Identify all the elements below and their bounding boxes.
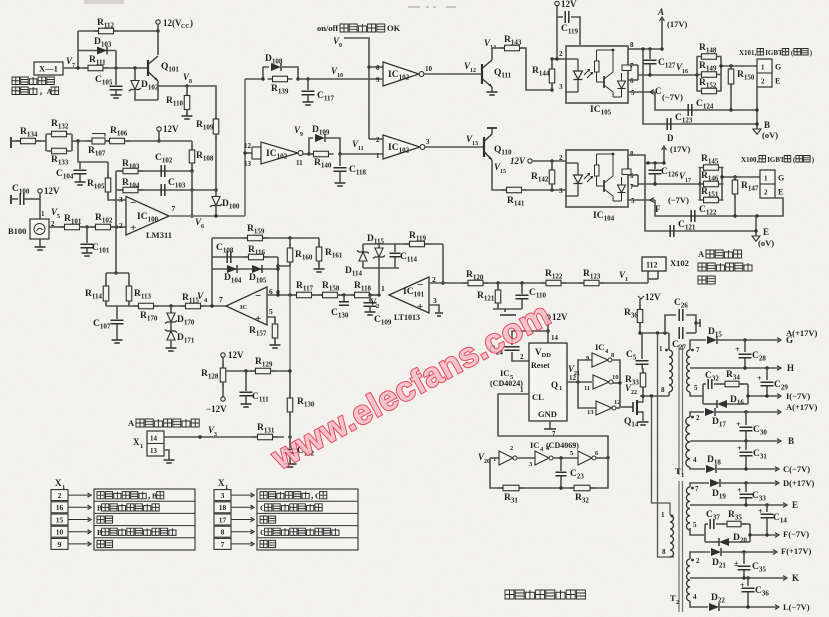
vertical feedback column x116 xyxy=(115,171,117,228)
zener D115 xyxy=(378,244,380,248)
capacitor C117 xyxy=(298,78,383,80)
resistor R108 xyxy=(191,141,193,150)
capacitor C121 xyxy=(645,163,756,231)
op-amp IC101a mirrored xyxy=(226,287,267,325)
wire G row lower xyxy=(722,176,760,178)
capacitor C130 xyxy=(337,294,356,296)
zener D170 xyxy=(169,304,172,307)
diode D103 xyxy=(78,50,116,52)
node V3 column xyxy=(288,435,291,438)
wire pin6 to R117 chain xyxy=(267,294,297,296)
terminal -12V xyxy=(221,397,225,401)
resistor R118 xyxy=(350,294,375,296)
wire R108 down to row C xyxy=(191,171,193,190)
capacitor C109 xyxy=(369,294,379,296)
capacitor C124 xyxy=(655,92,757,110)
annotation A-phase input (Chinese) xyxy=(12,77,20,85)
wire column to V6 row xyxy=(191,190,193,216)
wire inverter outputs merge xyxy=(612,360,620,407)
op-amp IC100 LM311 xyxy=(126,197,169,236)
row R103/C102 xyxy=(116,170,192,172)
resistor R161 xyxy=(318,238,320,247)
capacitor C36 polarized xyxy=(747,578,749,586)
T1 primary winding pins 1-8 xyxy=(668,333,670,350)
T1 core xyxy=(678,345,680,475)
capacitor C107 xyxy=(106,305,129,307)
resistor R131 xyxy=(253,436,278,438)
terminal 12V for B100 xyxy=(38,189,42,193)
wire V7 column xyxy=(77,31,79,68)
terminal 12V top xyxy=(555,1,559,5)
resistor R110 xyxy=(186,86,188,95)
wire LM311 output V6 xyxy=(170,215,245,217)
node C -7V xyxy=(650,90,654,95)
resistor R104 xyxy=(118,189,143,191)
feedback right column xyxy=(277,257,279,292)
capacitor C118 xyxy=(339,154,341,166)
op-amp IC101 LT1013 xyxy=(389,277,429,313)
trimmer R107 xyxy=(87,140,110,142)
resistor R32 xyxy=(569,487,595,489)
diode D17 and A output xyxy=(690,412,704,417)
resistor R111 xyxy=(83,67,108,69)
T2 core xyxy=(678,481,680,612)
inverter osc a xyxy=(490,457,499,459)
wire X-1 to R111 xyxy=(63,67,88,69)
capacitor C33 polarized xyxy=(745,483,747,492)
wire R129 to column xyxy=(270,370,290,372)
connector X100 xyxy=(760,170,775,198)
terminal 12(Vcc) xyxy=(156,20,160,24)
resistor R121 xyxy=(497,283,499,290)
diode D22 and L output xyxy=(690,601,708,607)
transistor Q101 xyxy=(147,60,149,76)
wire node down to C104/R105 xyxy=(78,141,108,162)
resistor network R145 R146 R151 xyxy=(699,168,701,201)
IC105 internal zener xyxy=(618,81,626,89)
wire R119 to pin2 xyxy=(442,244,444,283)
node V2 xyxy=(377,293,380,296)
feedback row D104 D105 xyxy=(212,268,278,270)
wire to R121/C110 xyxy=(483,282,546,284)
gate IC102 pins 12 13 xyxy=(252,147,261,159)
feedback left column xyxy=(211,238,213,306)
resistor R133 xyxy=(47,150,72,152)
wire node to R107 xyxy=(72,140,92,142)
resistor R157 xyxy=(267,317,275,323)
capacitor C23 xyxy=(560,458,562,471)
resistor R102 xyxy=(91,226,116,228)
capacitor C101 xyxy=(86,227,88,243)
connector X1 pins 14 13 xyxy=(147,431,164,456)
wire R111 to Q101 base xyxy=(103,67,148,69)
wire G row xyxy=(721,65,757,67)
terminal B 0V xyxy=(753,129,761,134)
wire osc bottom loop xyxy=(490,458,608,488)
transistor Q110 xyxy=(483,137,485,157)
capacitor C127 xyxy=(649,49,651,59)
B output row xyxy=(690,440,779,442)
IC105 phototransistor xyxy=(595,61,600,72)
resistor R132 parallel block xyxy=(45,134,47,151)
capacitor C104 xyxy=(79,162,81,169)
capacitor C28 polarized xyxy=(744,340,746,352)
resistor R170 xyxy=(134,305,159,307)
wire R128 tap to R129 xyxy=(226,370,256,372)
resistor R128 xyxy=(222,357,224,368)
wire V22 row xyxy=(640,395,669,397)
resistor R123 xyxy=(561,282,584,284)
resistor R142 xyxy=(551,161,553,170)
wire gate3 to Q110 xyxy=(425,146,484,148)
T2 primary winding xyxy=(670,515,674,557)
capacitor C29 polarized xyxy=(766,368,768,380)
zener clamp D114 xyxy=(378,268,380,295)
capacitor C122 xyxy=(655,200,757,216)
resistor R115 xyxy=(181,305,206,307)
wire feedback column down xyxy=(289,266,291,371)
caption (Chinese) xyxy=(505,590,514,599)
resistor R160 xyxy=(289,238,291,248)
capacitor C103 xyxy=(161,184,165,196)
gate IC102 pins 8 9 xyxy=(383,62,419,86)
inverter IC4 a xyxy=(592,353,608,367)
resistor R130 xyxy=(289,371,291,398)
capacitor C24 xyxy=(512,331,548,345)
resistor R150 xyxy=(730,66,732,69)
IC105 pin7 resistor xyxy=(622,65,631,71)
wire 12V to opto pin2 xyxy=(552,58,566,60)
wire Q110 emitter to R141 xyxy=(492,160,507,190)
resistor R36 xyxy=(639,299,641,309)
capacitor C14 polarized xyxy=(766,505,768,512)
IC104 pin7 resistor xyxy=(622,169,631,175)
resistor R139 xyxy=(268,78,293,80)
gate IC102 pins 2 1 xyxy=(369,138,383,140)
wire to R132/R133 pair xyxy=(36,140,47,142)
IC104 LED xyxy=(577,163,579,175)
opto-coupler IC104 box xyxy=(566,150,628,207)
connector X102 xyxy=(647,271,649,279)
resistor R109 xyxy=(215,114,217,139)
wire E pin X100 loop xyxy=(757,198,783,216)
ground Q111 emitter xyxy=(491,87,493,92)
shared ground R121 C110 xyxy=(493,308,522,310)
capacitor C102 xyxy=(161,165,165,177)
wire R143 to opto pin3 row xyxy=(520,48,553,90)
wire V17 row xyxy=(638,183,700,185)
K output row xyxy=(690,577,785,579)
resistor R106 xyxy=(105,140,110,142)
capacitor C31 polarized xyxy=(745,441,747,450)
mosfet Q14 xyxy=(620,406,633,408)
sensor B100 xyxy=(30,219,49,239)
node F -7V xyxy=(650,198,654,203)
resistor R129 xyxy=(251,370,276,372)
ground X1 pin13 xyxy=(164,450,169,460)
IC105 LED xyxy=(577,59,579,71)
wire node row 333 xyxy=(640,332,669,334)
diode D15 and G output xyxy=(690,340,706,350)
terminal E 0V xyxy=(755,216,757,236)
inverter IC4 c xyxy=(596,401,612,415)
resistor R117 xyxy=(292,294,317,296)
diode D18 and C output xyxy=(690,467,705,469)
wire gate1 output xyxy=(303,153,315,155)
E output row xyxy=(690,504,785,506)
wire V3 row xyxy=(164,436,284,438)
IC5 CD4024 box xyxy=(529,343,567,421)
inverter IC4 b xyxy=(593,375,609,389)
capacitor C100 xyxy=(10,195,12,204)
capacitor C119 xyxy=(556,6,558,59)
I output row with C32 R34 D16 xyxy=(690,392,703,396)
resistor R114 xyxy=(105,273,107,286)
resistor R141 xyxy=(502,189,527,191)
row R104/C103 xyxy=(116,189,216,191)
inverter osc b xyxy=(517,457,535,459)
IC104 internal zener xyxy=(618,185,626,193)
wire Q101 emitter to V8 xyxy=(157,81,159,100)
node row pin8 xyxy=(643,48,662,50)
watermark www.elecfans.com xyxy=(265,295,557,477)
wire gate2 to Q111 xyxy=(424,73,482,75)
connector X-1 xyxy=(34,62,63,75)
capacitor C126 xyxy=(654,163,656,169)
wire Q111 collector to R143 xyxy=(492,48,505,60)
capacitor C111 xyxy=(245,371,247,391)
row V10 with D108 R139 xyxy=(245,78,263,80)
wire V16 row xyxy=(638,74,697,76)
wire D103 right leg xyxy=(115,51,117,69)
capacitor C123 xyxy=(643,49,757,124)
wire Vcc to R112 row and Q101 collector xyxy=(157,24,159,31)
branch R114/R113 xyxy=(106,272,129,274)
terminal 12V for IC104 xyxy=(528,159,532,163)
capacitor C30 polarized xyxy=(745,412,747,425)
node row pin8 lower xyxy=(645,162,664,164)
resistor R144 xyxy=(551,59,553,68)
resistor R120 xyxy=(463,282,488,284)
wire tap to IC102 pins 12/13 xyxy=(245,152,252,154)
diode D109 loop xyxy=(309,138,313,154)
capacitor C26 loop xyxy=(665,315,676,333)
zener D171 xyxy=(170,322,172,332)
faint marks top-center xyxy=(408,6,456,8)
T1 secondary winding pins 7-5 xyxy=(687,350,690,392)
wire to V1 X102 xyxy=(599,282,648,284)
capacitor C110 xyxy=(521,283,523,294)
wire R106 to R108 xyxy=(125,140,193,142)
resistor R101 xyxy=(49,226,65,228)
pin3 ground stub xyxy=(429,305,439,312)
long wire line A to T2 pin1 xyxy=(652,396,671,515)
T2 secondary winding pins 7-5 xyxy=(686,487,690,530)
input stub left xyxy=(10,137,12,148)
resistor R105 xyxy=(107,162,109,178)
resistor R122 xyxy=(541,282,566,284)
feedback top row R119 xyxy=(363,243,443,245)
opto-coupler IC105 box xyxy=(566,46,628,103)
wire V6 riser to V10 row xyxy=(244,79,246,216)
F -7V row with C37 R35 D20 xyxy=(690,528,705,535)
wire V8 to R109 column xyxy=(187,86,216,119)
resistor R103 xyxy=(118,170,143,172)
feedback row C108 R116 xyxy=(212,256,278,258)
zener D102 xyxy=(134,68,136,80)
resistor R158 xyxy=(311,294,323,296)
terminal 12V mid xyxy=(157,127,161,131)
T2 secondary winding pins 2-4 xyxy=(687,559,690,601)
T1 secondary winding pins 2-4 xyxy=(686,417,690,467)
resistor R143 xyxy=(500,47,525,49)
capacitor C114 xyxy=(394,244,396,252)
resistor R112 xyxy=(94,30,119,32)
resistor R113 xyxy=(128,273,130,286)
H output row xyxy=(690,367,779,369)
wire R141 to opto pin3 xyxy=(521,189,566,191)
wire to R102 xyxy=(79,226,96,228)
Q1 output wire V21 xyxy=(567,381,592,383)
connector X101 xyxy=(757,59,772,87)
capacitor C105 xyxy=(115,68,117,85)
wire osc output xyxy=(596,457,608,459)
wire R109 to D100 xyxy=(215,134,217,196)
capacitor C35 polarized xyxy=(743,552,745,564)
terminal 12V for IC5 xyxy=(546,315,550,319)
wire V11 row xyxy=(340,153,383,155)
stub H tick xyxy=(694,321,697,324)
resistor R31 xyxy=(498,487,524,489)
ground B100 xyxy=(39,239,41,247)
capacitor C112 xyxy=(289,437,291,448)
zener D100 xyxy=(212,197,220,206)
IC104 phototransistor xyxy=(595,165,600,176)
IC5 GND pin 7 xyxy=(549,421,551,429)
CL wire to oscillator xyxy=(498,394,608,458)
inverter osc c xyxy=(553,457,578,459)
row V4 with R170 R115 xyxy=(129,305,227,307)
resistor network R148 R149 R152 xyxy=(696,57,698,92)
capacitor C27 in series xyxy=(679,327,683,339)
diode D21 and F output xyxy=(690,552,710,559)
capacitor C5 xyxy=(641,333,643,359)
terminal +12V for R128 xyxy=(221,353,225,357)
long wire line B to T2 pin8 xyxy=(658,333,675,557)
resistor R134 xyxy=(16,140,41,142)
wire E pin to C124 row xyxy=(756,87,758,129)
scan smudge top-left xyxy=(84,0,124,4)
terminal 12V for R36 xyxy=(638,296,644,299)
terminal D 17V xyxy=(662,146,667,150)
feedback row R159 xyxy=(212,237,319,239)
resistor R33 xyxy=(642,368,644,392)
resistor R147 xyxy=(734,177,736,180)
wire pin2 output row xyxy=(429,282,469,284)
wire V0 to pin8 xyxy=(369,66,383,68)
transistor Q111 xyxy=(481,64,483,84)
resistor R140 xyxy=(309,153,334,155)
diode D19 and D output xyxy=(690,483,709,487)
Q110 collector supply bar xyxy=(491,128,493,134)
